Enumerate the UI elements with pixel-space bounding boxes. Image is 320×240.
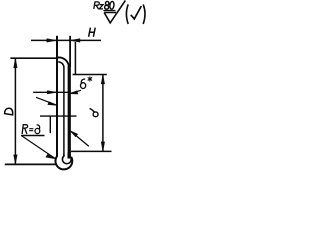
- part top outer bend arc: [58, 57, 69, 67]
- d arrowhead bottom: [101, 142, 105, 152]
- its arrowhead at left wall: [47, 91, 57, 94]
- diagonal leader to wall with arrowhead: [36, 97, 57, 105]
- delta leader arrowhead: [69, 91, 78, 95]
- dimension line H: [31, 39, 101, 41]
- machining (surface finish) symbol: [104, 0, 125, 23]
- delta leader to right wall: [71, 90, 81, 93]
- D arrowhead bottom: [14, 155, 18, 165]
- label D (rotated 90): [5, 108, 13, 115]
- dimension d extension bottom: [71, 150, 112, 152]
- part right wall line C (+H extension above): [69, 36, 71, 67]
- lower leader arrowhead: [46, 154, 56, 159]
- part left wall line A (+H extension above): [56, 36, 58, 156]
- vertical connector from H line down to d extension: [74, 42, 76, 75]
- dimension d line: [102, 75, 104, 152]
- part bottom outer curl: [55, 155, 72, 170]
- upper leader: horizontal run: [40, 115, 77, 117]
- part top inner bend arc: [58, 62, 64, 68]
- thickness dimension line through walls: [33, 91, 71, 93]
- H arrowhead left: [47, 39, 57, 43]
- part bottom inner curl: [62, 155, 71, 164]
- dimension D line: [14, 58, 16, 164]
- lower leader to bottom curl: [22, 136, 55, 158]
- its arrowhead: [69, 130, 78, 137]
- D arrowhead top: [14, 58, 18, 68]
- dimension d extension top: [73, 74, 107, 76]
- label delta-star (wall thickness): [81, 77, 93, 89]
- part inner wall line B: [63, 68, 65, 157]
- check mark: [131, 6, 142, 19]
- label H (italic): [89, 28, 96, 37]
- underline under 80: [103, 10, 115, 12]
- dimension D extension bottom: [5, 163, 56, 165]
- text 80 underlined: [105, 1, 115, 9]
- H arrowhead right: [70, 39, 80, 43]
- leader from lower right into wall: [71, 132, 89, 147]
- R=delta underline shelf: [21, 135, 45, 137]
- ) paren: [143, 4, 145, 24]
- upper leader: riser from shelf: [49, 116, 51, 133]
- label R=delta underlined: [22, 125, 40, 134]
- text Rz (roughness note): [94, 2, 103, 9]
- ( paren: [126, 4, 128, 24]
- dimension D extension top: [10, 57, 57, 59]
- d arrowhead top: [101, 75, 105, 84]
- label d (rotated 90): [90, 108, 99, 116]
